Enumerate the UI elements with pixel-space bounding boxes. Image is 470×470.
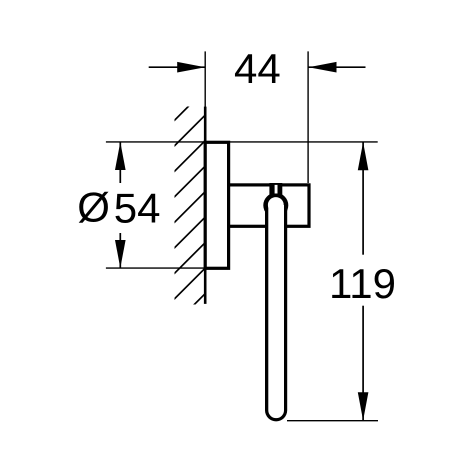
top extension line (shared by dia 54 and 119) (106, 141, 378, 143)
ring pivot pin (269, 183, 282, 197)
dia 54: down arrow (115, 240, 126, 268)
svg-text:119: 119 (329, 260, 396, 307)
mounting plate (side view of round rosette) (205, 142, 228, 268)
ring knuckle (hinge barrel) (263, 193, 288, 218)
119: up arrow (358, 142, 369, 170)
dia 54: up arrow (115, 142, 126, 170)
dia 54: bottom extension line (106, 267, 229, 269)
119: bottom extension line (287, 420, 378, 422)
knuckle inner white (268, 197, 284, 213)
dimension 44: left dim line (149, 66, 206, 68)
svg-text:54: 54 (114, 184, 161, 231)
dimension 44: right arrow (309, 62, 337, 73)
119: dim line lower segment (362, 306, 364, 421)
dia 54: dim line lower segment (119, 233, 121, 268)
pivot pin white gap (275, 185, 278, 194)
support arm (229, 185, 309, 226)
svg-text:Ø: Ø (77, 183, 110, 230)
dimension 44: right dim line (309, 66, 366, 68)
dimension 44: right extension line (307, 51, 309, 183)
wall line (204, 107, 207, 304)
119: dim line upper segment (362, 142, 364, 255)
svg-text:44: 44 (234, 45, 281, 92)
ring rod inner white (268, 205, 284, 418)
119: down arrow (358, 392, 369, 420)
dimension 44: left extension line (204, 51, 206, 107)
dimension 44: left arrow (177, 62, 205, 73)
wall hatching (171, 88, 207, 328)
dia 54: dim line upper segment (119, 142, 121, 183)
ring rod outer silhouette (265, 205, 287, 421)
